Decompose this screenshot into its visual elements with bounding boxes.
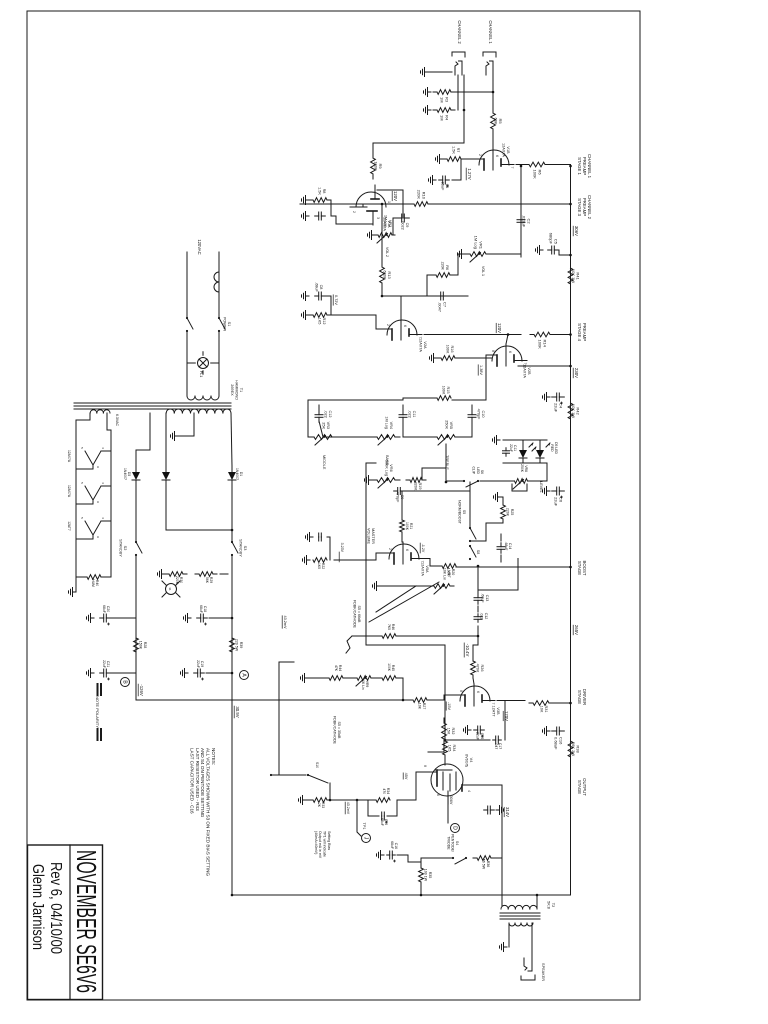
resistor R36 screen [473, 856, 495, 861]
svg-text:1N4007: 1N4007 [235, 468, 239, 480]
svg-text:TP1: TP1 [362, 823, 366, 830]
svg-text:VR7: VR7 [447, 571, 451, 578]
wire V4 plate to OT [462, 785, 502, 906]
svg-text:68uF: 68uF [380, 818, 384, 826]
svg-text:R8: R8 [322, 189, 326, 194]
junction V2A plate node [507, 333, 510, 336]
wire C14 stub left [500, 534, 502, 541]
svg-text:V3B: V3B [496, 707, 500, 715]
wire cathode RC top [387, 800, 397, 816]
svg-text:LEVEL: LEVEL [539, 481, 543, 492]
svg-text:120V: 120V [393, 191, 398, 201]
ground led cluster [493, 436, 501, 445]
svg-text:10K Lin: 10K Lin [361, 678, 365, 690]
svg-text:1.5K: 1.5K [451, 146, 455, 154]
label C9 label [400, 220, 409, 230]
ground below C16b [377, 851, 385, 860]
junction rail at tap 255 [569, 254, 572, 257]
svg-text:R31: R31 [544, 706, 548, 713]
wire V1A cathode to RC [331, 215, 373, 224]
wire C19 tap [206, 672, 232, 674]
winding T1 heater secondary [90, 410, 110, 413]
wire hum top lead [101, 576, 111, 578]
potentiometer VR9 presence [356, 676, 371, 686]
svg-text:12AT7: 12AT7 [491, 706, 495, 717]
svg-text:S10: S10 [315, 762, 319, 768]
svg-text:STAGE 4: STAGE 4 [577, 323, 582, 341]
capacitor C17 output coupling [493, 736, 502, 744]
wire HV top lead [231, 413, 232, 466]
wire R5 to V1B grid [492, 131, 494, 150]
svg-text:POWER: POWER [222, 317, 226, 332]
svg-text:2: 2 [388, 548, 392, 550]
wire lamp bottom [187, 362, 195, 364]
wire grid feed up [402, 490, 470, 492]
wire ch2 tip bus [457, 75, 459, 110]
ground HV center tap [171, 432, 179, 441]
label R21 label [405, 522, 413, 531]
svg-text:56 5W: 56 5W [482, 859, 486, 870]
label R6 mix label [441, 262, 449, 271]
svg-text:.022uF: .022uF [522, 215, 527, 228]
switch S1b power [186, 317, 193, 332]
label C9 label [395, 492, 404, 503]
label Cmid label [323, 410, 332, 417]
wire R13 to bus [381, 204, 383, 265]
resistor R7 cathode [443, 157, 465, 162]
svg-text:R26: R26 [480, 665, 484, 672]
label stage label boost stage [577, 560, 587, 575]
ground below R12 [302, 311, 310, 320]
junction s10 node [329, 799, 332, 802]
svg-text:.022: .022 [323, 410, 327, 417]
svg-text:306V: 306V [574, 226, 579, 236]
capacitor C16b screen bypass [387, 851, 396, 862]
svg-text:25uF: 25uF [440, 182, 444, 191]
svg-text:12AX7A: 12AX7A [67, 450, 71, 463]
svg-text:.68uF: .68uF [481, 593, 485, 603]
svg-text:S3: S3 [243, 546, 247, 551]
label OT label [546, 901, 555, 909]
svg-text:45V: 45V [404, 773, 408, 780]
svg-text:TP1 will indicate: TP1 will indicate [323, 831, 327, 857]
capacitor Cbass [399, 410, 407, 423]
ground for C4 [543, 393, 551, 402]
resistor R16 grid leak [437, 356, 459, 361]
wire V2B grid from V2A plate [506, 335, 508, 345]
svg-text:V2B: V2B [527, 367, 531, 375]
svg-text:VOLUME: VOLUME [366, 528, 370, 545]
svg-text:NOTE POLARITY: NOTE POLARITY [95, 696, 100, 728]
label C16b label [390, 841, 398, 849]
label R8 label [317, 187, 326, 195]
wire V5A out [483, 559, 518, 591]
svg-text:68uF: 68uF [102, 605, 106, 613]
resistor R42 on rail [568, 398, 581, 424]
wire bias lead [136, 413, 150, 466]
svg-text:12AT7: 12AT7 [67, 521, 71, 531]
wire V1B plate to R6 [516, 164, 525, 166]
label TREBLE [445, 455, 449, 470]
label bias note [314, 831, 331, 859]
svg-text:NOTES:: NOTES: [211, 748, 216, 765]
svg-text:12AX7A: 12AX7A [418, 338, 422, 352]
svg-text:1M: 1M [440, 115, 445, 121]
label S4 label [446, 834, 459, 852]
wire hum out [75, 577, 77, 592]
wire decoupling line [397, 635, 478, 637]
triode V1A 12AX7A [350, 185, 391, 225]
wire V2B cathode out [486, 355, 492, 400]
switch S10 cathode fdbk [270, 774, 330, 800]
label MASTER|VOLUME [366, 528, 375, 545]
wire input routing to V1A [373, 142, 464, 144]
svg-text:-1.2V: -1.2V [421, 544, 425, 553]
wire tone cap feeds b [402, 405, 404, 411]
wire C13 wiring [478, 590, 483, 593]
label S8 label [476, 550, 480, 554]
svg-text:3: 3 [376, 217, 380, 219]
label D3 label [123, 468, 131, 480]
label R19 label [413, 482, 422, 491]
wire master out [477, 566, 479, 592]
svg-text:RED: RED [550, 444, 554, 452]
wire S5 line [469, 482, 471, 528]
wire OT primary top [536, 895, 538, 909]
svg-text:Setting Bias: Setting Bias [327, 831, 331, 850]
svg-text:1M Log: 1M Log [384, 215, 388, 227]
wire cathode RC bottom [368, 800, 379, 816]
label C19 label [196, 660, 204, 668]
svg-text:1N4007: 1N4007 [123, 468, 127, 480]
capacitor C7 coupling [436, 292, 449, 313]
label C13 label [481, 593, 489, 603]
svg-text:R12: R12 [322, 318, 326, 325]
resistor R21 grid stopper [400, 517, 405, 535]
label voltage 1.45V [420, 543, 425, 553]
svg-text:100K: 100K [533, 170, 538, 180]
capacitor C9 fat [394, 488, 405, 495]
wire rail tap to C5 [559, 250, 571, 255]
svg-text:56K: 56K [205, 577, 209, 584]
resistor R20 plate load [442, 564, 456, 569]
wire C13 to C12 [477, 606, 479, 612]
wire bass to mid [319, 421, 377, 437]
ground below C19 [181, 669, 189, 678]
label S6 label [472, 466, 484, 474]
label VR8 label [520, 464, 528, 473]
svg-text:V1B: V1B [506, 146, 510, 154]
wire preamp bus lower [300, 203, 409, 205]
svg-text:VR5: VR5 [449, 422, 453, 429]
wire bias to standby [135, 486, 137, 542]
svg-text:STANDBY: STANDBY [118, 539, 122, 557]
svg-text:.68uF: .68uF [504, 542, 508, 551]
svg-text:3.23V: 3.23V [340, 543, 344, 553]
junction routing at R4 [463, 109, 466, 112]
label R22 label [317, 563, 325, 569]
svg-text:HUM: HUM [91, 579, 95, 587]
label plus volt label [234, 706, 240, 718]
label T1 label [230, 380, 243, 400]
wire diagonal feedback [369, 582, 439, 622]
label voltage 314V [504, 807, 510, 817]
capacitor C12 coupling [474, 614, 482, 623]
ground below VR6 [365, 476, 373, 485]
svg-text:R35: R35 [428, 872, 432, 879]
winding OT primary [501, 905, 537, 909]
junction rect join [231, 529, 234, 532]
svg-text:TRIODE: TRIODE [446, 836, 450, 850]
wire fdbk chain upper [397, 677, 403, 679]
wire V5A grid feed [401, 491, 403, 517]
svg-text:C12: C12 [484, 613, 488, 620]
svg-text:500K Log: 500K Log [384, 460, 388, 476]
svg-text:10K 1W: 10K 1W [571, 269, 576, 283]
svg-text:-126V: -126V [139, 684, 144, 696]
label R32 label [446, 728, 455, 735]
svg-text:1.5K: 1.5K [317, 187, 321, 195]
diode D6 clip [536, 440, 550, 463]
svg-text:R39: R39 [239, 642, 243, 649]
label S2 label [118, 539, 127, 557]
resistor R10 decoupling [410, 190, 432, 207]
svg-text:STAGE: STAGE [577, 690, 582, 704]
label bias volt label [138, 684, 144, 696]
capacitor C21 bias filter [100, 669, 111, 680]
wire C22 branch [327, 537, 330, 560]
wire VR1 to R6 [452, 254, 467, 275]
svg-text:C15: C15 [480, 733, 484, 740]
svg-text:CHANNEL 1: CHANNEL 1 [488, 20, 493, 44]
label VR5 label [444, 420, 453, 429]
resistor R31 plate load [529, 701, 553, 706]
wire screen chain bottom [421, 858, 453, 866]
svg-text:ALL VOLTAGES SHOWN WITH S3 ON: ALL VOLTAGES SHOWN WITH S3 ON FIXED BIAS… [206, 748, 211, 876]
capacitor C8 bypass [315, 292, 326, 300]
wire R35 to B+ drop [420, 884, 422, 895]
label VOL 1 label [481, 266, 485, 276]
wire C9 to VR2 [393, 218, 396, 235]
capacitor C6 rail bypass [552, 487, 565, 507]
junction rail at V2B [569, 365, 572, 368]
svg-text:43.2mV: 43.2mV [346, 802, 350, 815]
label C12 label [480, 613, 488, 620]
ground below C5 [536, 246, 544, 255]
svg-text:30.5V: 30.5V [235, 706, 240, 717]
title text NOVEMBER SE6V6 [71, 850, 102, 993]
svg-text:R6: R6 [445, 265, 449, 270]
svg-text:C8: C8 [319, 285, 323, 290]
label C1 label [440, 182, 449, 191]
junction jack bus [492, 91, 495, 94]
svg-text:1M Log: 1M Log [474, 236, 479, 249]
label voltage 43.2mV [282, 615, 287, 629]
resistor R29 bias adj [195, 572, 217, 577]
resistor R19 to volume [406, 478, 426, 483]
potentiometer VR6 volume [372, 478, 400, 488]
label R20 label [447, 568, 455, 577]
svg-text:R19: R19 [418, 483, 422, 490]
level pot return [512, 484, 527, 491]
wire slope [308, 400, 319, 437]
label R40 label [91, 579, 99, 587]
svg-text:680K: 680K [382, 270, 387, 280]
ground below R33 [299, 796, 307, 805]
switch S4 pentode/triode [452, 857, 467, 864]
potentiometer VR7 master [430, 584, 454, 594]
label voltage 0.72V [333, 295, 338, 306]
wire V3 plate out [504, 701, 506, 741]
svg-text:5K:8: 5K:8 [546, 901, 550, 909]
potentiometer VR1 volume 1 [466, 236, 490, 262]
wire level to clip switch [480, 480, 514, 482]
ground for C6 [543, 487, 551, 496]
switch S3 standby [231, 541, 238, 556]
title text author [29, 864, 46, 950]
svg-text:R28: R28 [143, 642, 147, 649]
svg-text:100K: 100K [373, 161, 378, 171]
resistor R25 boost [501, 501, 506, 523]
wire C17 to V4 grid line [445, 739, 490, 741]
svg-text:C9: C9 [405, 223, 409, 228]
svg-text:12AX7A: 12AX7A [420, 562, 424, 576]
wire V5A plate lead [424, 559, 442, 567]
svg-text:1K5: 1K5 [447, 745, 451, 752]
svg-text:6: 6 [405, 549, 409, 551]
wire hum bottom lead [76, 576, 87, 578]
winding T1 primary [187, 396, 219, 400]
label VR2 label [384, 215, 392, 227]
wire V4 cathode [397, 772, 432, 800]
diode D2 [162, 466, 170, 486]
svg-text:6V6GT: 6V6GT [464, 754, 468, 767]
ground below R7 [436, 155, 444, 164]
label stage label output stage [577, 778, 587, 796]
wire B+ rail drop to output transformer [232, 894, 571, 896]
svg-text:680pF: 680pF [549, 233, 554, 245]
svg-text:470: 470 [382, 788, 386, 794]
svg-text:0.72V: 0.72V [334, 295, 338, 305]
ground fdbk chain [301, 674, 309, 683]
wire R31 to rail [549, 702, 571, 704]
label VR7 label [443, 568, 451, 580]
svg-text:25K: 25K [321, 422, 325, 429]
svg-text:V5A: V5A [425, 565, 429, 573]
wire tone vertical upper [452, 399, 472, 401]
ground for C16 [543, 727, 551, 736]
ground below R30 [158, 570, 166, 579]
heater filament V1 12AX7A [76, 447, 111, 469]
svg-text:22uF: 22uF [509, 444, 513, 452]
svg-text:S2: S2 [123, 546, 127, 551]
title text rev line [47, 862, 64, 954]
wire V1A plate output [377, 190, 403, 218]
svg-text:(40mA=40mV): (40mA=40mV) [314, 831, 318, 854]
svg-text:1.38V: 1.38V [479, 365, 483, 375]
ground below C1 [429, 176, 437, 185]
wire screen chain top [494, 857, 502, 859]
wire jack to routing wire [463, 75, 465, 143]
svg-text:22uF: 22uF [554, 403, 559, 413]
resistor R4 input load [433, 108, 455, 121]
label R26 label [475, 664, 484, 673]
jack J1 channel 2 input [452, 52, 465, 75]
wire R25 gnd lead [501, 497, 503, 502]
label C17 label [494, 743, 502, 750]
resistor R33 cathode [313, 798, 327, 803]
wire R11 to C7 [382, 285, 429, 296]
junction mix node [381, 295, 384, 298]
wire V2B plate to rail [518, 365, 571, 367]
svg-text:220K: 220K [417, 190, 422, 200]
capacitor C13 coupling [474, 594, 482, 605]
label mains label [197, 239, 202, 254]
triode V2B 12AX7A [488, 344, 527, 366]
label PL1 label [199, 371, 203, 377]
label voltage 1.27V [466, 168, 472, 180]
svg-text:VR2: VR2 [388, 220, 392, 227]
wire R33 to gnd [306, 799, 313, 801]
svg-text:SPEAKER: SPEAKER [541, 963, 545, 981]
resistor R3 input load [433, 90, 455, 103]
ground below VR2 [368, 231, 376, 240]
resistor R14 plate load [530, 332, 554, 349]
svg-text:100K: 100K [538, 340, 543, 350]
resistor R9 plate load [371, 153, 384, 179]
potentiometer VR3 mid [309, 435, 337, 445]
wire cathode to C8 [326, 296, 331, 315]
label voltage 265V [573, 625, 579, 635]
label VR6 label [384, 460, 393, 476]
wire master volume long line [365, 463, 367, 645]
label R16 label [445, 345, 454, 354]
wire fdbk chain mid2 [344, 677, 357, 679]
wire mains hot [218, 252, 220, 318]
node node A [240, 671, 249, 680]
wire C7 up [455, 295, 468, 297]
page border frame [27, 11, 640, 1000]
label notes block [189, 748, 216, 876]
ground below R16 [430, 354, 438, 363]
wire tone cap feeds t [471, 405, 473, 411]
wire V4 grid in [444, 758, 446, 765]
ground below R4 [424, 106, 432, 115]
wire mv line left riser [366, 462, 376, 464]
wire heater bus bottom [76, 413, 90, 577]
label VR4 label [384, 416, 393, 429]
wire decouple lower [352, 635, 382, 637]
triode V2A 12AX7A [383, 318, 422, 340]
label R7 label [451, 146, 460, 154]
label V4 label [464, 754, 473, 767]
junction bplus at OT [536, 894, 539, 897]
ground below R3 [424, 88, 432, 97]
svg-text:1M Log: 1M Log [384, 416, 388, 429]
label V5A label [420, 562, 429, 576]
potentiometer VR8 level [513, 479, 529, 489]
wire treble top [455, 421, 472, 437]
label stage label channel 1 preamp stage 1 [577, 154, 592, 179]
wire fdbk return riser [279, 661, 294, 663]
svg-text:7: 7 [510, 167, 514, 169]
svg-text:250K: 250K [520, 464, 524, 473]
label V3B label [491, 706, 500, 717]
junction rail at R6 [569, 165, 572, 168]
switch S2 standby b [135, 541, 142, 556]
svg-text:6: 6 [436, 794, 440, 796]
wire primary bottom lead [186, 390, 188, 396]
